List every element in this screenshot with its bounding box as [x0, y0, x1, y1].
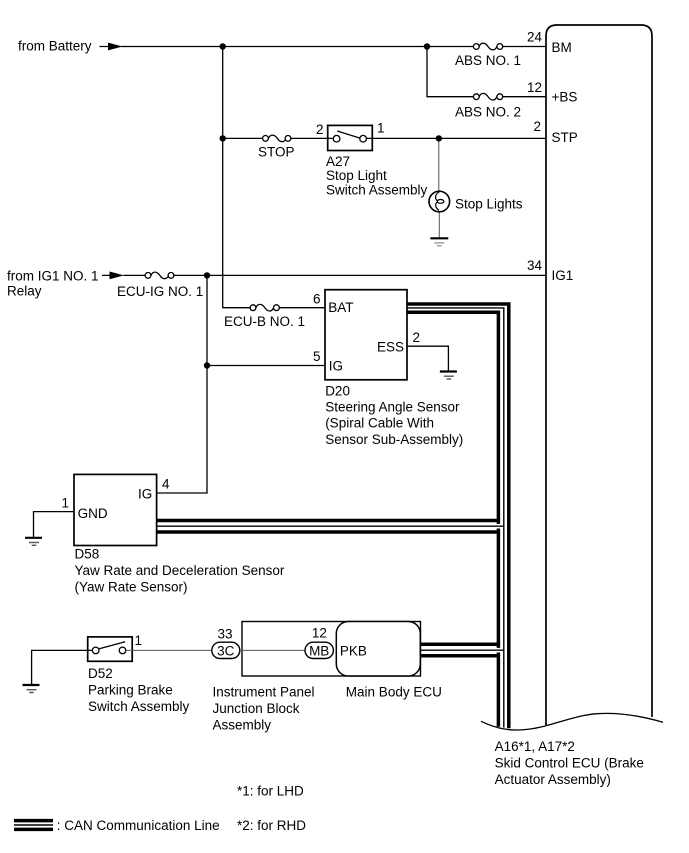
wire battery junction down to STOP line and to ECU-B fuse: [223, 47, 250, 308]
svg-text:Steering Angle Sensor: Steering Angle Sensor: [325, 400, 460, 415]
wire IG1 vertical branch to D20 IG and D58: [157, 275, 207, 493]
junction dot IG1 branch: [204, 272, 210, 278]
svg-text:Actuator Assembly): Actuator Assembly): [495, 772, 611, 787]
svg-text:: CAN Communication Line: : CAN Communication Line: [57, 818, 220, 833]
svg-text:ECU-IG NO. 1: ECU-IG NO. 1: [117, 284, 203, 299]
fuse ECU-B NO. 1: [224, 304, 305, 329]
fuse ABS NO. 1: [455, 43, 521, 68]
wire from Battery horizontal: [100, 46, 547, 48]
wire 3C to MB: [240, 649, 305, 651]
svg-text:Switch Assembly: Switch Assembly: [326, 182, 428, 197]
connector 3C oval: [212, 626, 240, 658]
ground at ESS: [440, 372, 457, 380]
svg-text:D58: D58: [75, 547, 100, 562]
svg-text:Sensor Sub-Assembly): Sensor Sub-Assembly): [325, 432, 463, 447]
svg-text:IG: IG: [329, 359, 343, 374]
svg-text:ECU-B NO. 1: ECU-B NO. 1: [224, 314, 305, 329]
arrow from Battery: [108, 43, 123, 51]
svg-text:1: 1: [377, 121, 385, 136]
svg-text:D52: D52: [88, 666, 113, 681]
Main Body ECU rounded box: [336, 622, 420, 677]
svg-text:Junction Block: Junction Block: [213, 701, 300, 716]
svg-text:from Battery: from Battery: [18, 39, 92, 54]
svg-text:1: 1: [61, 495, 69, 510]
wire from IG1 NO.1 Relay: [102, 274, 546, 276]
svg-text:STP: STP: [552, 130, 578, 145]
svg-text:4: 4: [162, 476, 170, 491]
junction dot battery/STOP branch: [220, 43, 226, 49]
svg-text:ABS NO. 2: ABS NO. 2: [455, 104, 521, 119]
CAN line from D20 to trunk and down: [407, 304, 509, 728]
svg-text:ABS NO. 1: ABS NO. 1: [455, 53, 521, 68]
svg-text:Stop Lights: Stop Lights: [455, 196, 523, 211]
svg-text:BM: BM: [552, 40, 572, 55]
wire ESS to ground: [407, 346, 448, 371]
arrow from IG1 relay: [110, 272, 125, 280]
svg-text:from IG1 NO. 1: from IG1 NO. 1: [7, 269, 99, 284]
svg-text:Stop Light: Stop Light: [326, 168, 387, 183]
svg-text:12: 12: [312, 625, 327, 640]
svg-text:A16*1, A17*2: A16*1, A17*2: [495, 739, 575, 754]
svg-text:Relay: Relay: [7, 283, 42, 298]
wire STOP line: [223, 137, 546, 139]
lamp Stop Lights: [429, 191, 450, 212]
ground below Stop Lights: [430, 238, 448, 246]
svg-text:1: 1: [135, 633, 143, 648]
connector MB oval: [305, 625, 333, 658]
svg-text:34: 34: [527, 258, 543, 273]
sensor D20 box: [325, 290, 407, 380]
wire to D20 IG pin 5: [207, 365, 325, 367]
CAN line from D58 to trunk: [157, 521, 504, 533]
CAN line from Main Body ECU to trunk: [420, 644, 504, 656]
svg-text:Assembly: Assembly: [213, 718, 272, 733]
svg-text:Main Body ECU: Main Body ECU: [346, 684, 442, 699]
wire branch to ABS NO. 2: [427, 47, 546, 97]
svg-text:(Spiral Cable With: (Spiral Cable With: [325, 416, 434, 431]
fuse STOP: [258, 135, 295, 160]
svg-text:5: 5: [313, 349, 321, 364]
svg-text:GND: GND: [78, 506, 108, 521]
wire D52 to ground: [32, 650, 93, 684]
junction block box Instrument Panel: [242, 622, 421, 677]
fuse ABS NO. 2: [455, 93, 521, 119]
svg-text:IG: IG: [138, 486, 152, 501]
switch A27 box: [328, 125, 373, 150]
svg-text:MB: MB: [309, 643, 329, 658]
svg-text:Parking Brake: Parking Brake: [88, 683, 173, 698]
svg-text:2: 2: [533, 119, 541, 134]
ground at D58: [25, 538, 42, 546]
junction dot STOP line: [220, 135, 226, 141]
svg-text:3C: 3C: [217, 643, 235, 658]
junction dot stop lights branch: [436, 135, 442, 141]
svg-text:D20: D20: [325, 383, 350, 398]
svg-text:*1: for LHD: *1: for LHD: [237, 784, 304, 799]
fuse ECU-IG NO. 1: [117, 272, 203, 299]
svg-text:PKB: PKB: [340, 643, 367, 658]
svg-text:12: 12: [527, 80, 542, 95]
svg-text:IG1: IG1: [552, 268, 574, 283]
svg-text:STOP: STOP: [258, 145, 295, 160]
wire ECU-B fuse to BAT pin: [279, 307, 325, 309]
svg-text:+BS: +BS: [552, 90, 578, 105]
svg-text:ESS: ESS: [377, 339, 404, 354]
svg-text:33: 33: [217, 626, 232, 641]
svg-text:2: 2: [413, 330, 421, 345]
svg-text:24: 24: [527, 29, 543, 44]
ground at D52: [23, 685, 40, 693]
svg-text:BAT: BAT: [328, 300, 353, 315]
sensor D58 box: [74, 474, 157, 545]
switch D52 box: [88, 637, 133, 661]
svg-text:Skid Control ECU (Brake: Skid Control ECU (Brake: [495, 756, 644, 771]
junction dot IG pin5 branch: [204, 362, 210, 368]
junction dot battery/ABS2 branch: [424, 43, 430, 49]
svg-text:Yaw Rate and Deceleration Sens: Yaw Rate and Deceleration Sensor: [75, 563, 285, 578]
svg-text:*2: for RHD: *2: for RHD: [237, 818, 306, 833]
wire GND pin to ground: [34, 512, 75, 537]
ECU box A16/A17 Skid Control ECU outline: [546, 25, 652, 725]
svg-text:(Yaw Rate Sensor): (Yaw Rate Sensor): [75, 580, 188, 595]
svg-text:Instrument Panel: Instrument Panel: [213, 684, 315, 699]
svg-text:Switch Assembly: Switch Assembly: [88, 699, 190, 714]
wire to Stop Lights lamp: [438, 138, 441, 237]
wire D52 to connector 3C: [126, 649, 212, 651]
svg-text:2: 2: [316, 122, 324, 137]
ECU box torn bottom edge (wave): [481, 713, 663, 730]
svg-text:6: 6: [313, 292, 321, 307]
svg-text:A27: A27: [326, 154, 350, 169]
legend CAN symbol: [14, 821, 53, 830]
